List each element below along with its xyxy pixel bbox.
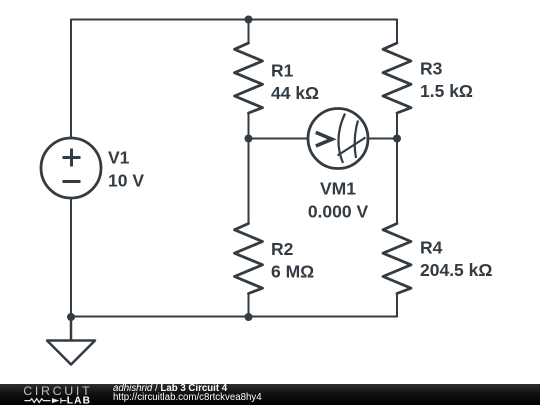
node top (junction dot) xyxy=(245,16,253,24)
voltage source V1 xyxy=(41,138,101,198)
wire middle branch bottom stub xyxy=(248,294,250,317)
resistor R1 xyxy=(235,43,263,113)
wire right branch (node to R4 top) xyxy=(396,139,398,224)
node bottom-middle xyxy=(245,313,253,321)
wire right branch mid (R3 bottom to node) xyxy=(396,113,398,139)
label R4 value xyxy=(420,260,492,280)
label VM1 designator xyxy=(320,179,356,199)
node B (right branch / voltmeter) xyxy=(393,135,401,143)
wire voltmeter left xyxy=(249,138,309,140)
svg-text:1.5 kΩ: 1.5 kΩ xyxy=(420,81,473,101)
wire top horizontal xyxy=(71,19,397,21)
svg-text:R3: R3 xyxy=(420,59,443,79)
label R4 designator xyxy=(420,238,443,258)
node ground-left xyxy=(67,313,75,321)
resistor R4 xyxy=(383,224,411,294)
svg-text:R1: R1 xyxy=(271,61,294,81)
voltmeter VM1 xyxy=(308,109,368,169)
ground xyxy=(47,317,95,365)
label R2 value xyxy=(271,262,314,282)
wire left vertical top (to V1) xyxy=(70,20,72,139)
svg-text:LAB: LAB xyxy=(67,396,92,405)
label R1 value xyxy=(271,83,319,103)
label R3 designator xyxy=(420,59,443,79)
label V1 designator xyxy=(108,148,130,168)
node A (middle branch / voltmeter) xyxy=(245,135,253,143)
wire middle branch mid (R1 bottom to R2 top through node) xyxy=(248,113,250,224)
CircuitLab logo xyxy=(0,384,110,405)
wire middle branch top stub xyxy=(248,20,250,44)
svg-text:204.5 kΩ: 204.5 kΩ xyxy=(420,260,492,280)
wire right branch top stub xyxy=(396,20,398,44)
label VM1 value 0.000 V xyxy=(308,202,369,222)
wire bottom horizontal xyxy=(71,316,397,318)
wire voltmeter right xyxy=(368,138,397,140)
resistor R2 xyxy=(235,224,263,294)
svg-text:VM1: VM1 xyxy=(320,179,356,199)
resistor R3 xyxy=(383,43,411,113)
label V1 value 10 V xyxy=(108,171,144,191)
svg-text:44 kΩ: 44 kΩ xyxy=(271,83,319,103)
label R3 value xyxy=(420,81,473,101)
svg-text:6 MΩ: 6 MΩ xyxy=(271,262,314,282)
svg-text:0.000 V: 0.000 V xyxy=(308,202,369,222)
svg-text:R4: R4 xyxy=(420,238,443,258)
footer title text xyxy=(113,385,262,403)
footer bar xyxy=(0,384,540,405)
svg-text:R2: R2 xyxy=(271,239,294,259)
wire right branch bottom stub xyxy=(396,294,398,317)
svg-text:V1: V1 xyxy=(108,148,130,168)
label R1 designator xyxy=(271,61,294,81)
wire left vertical bottom (V1 to bottom rail) xyxy=(70,198,72,317)
svg-text:10 V: 10 V xyxy=(108,171,144,191)
label R2 designator xyxy=(271,239,294,259)
